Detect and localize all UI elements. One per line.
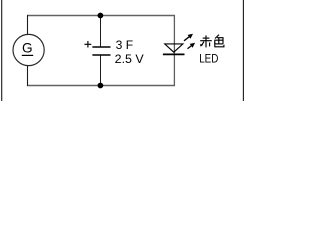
svg-text:3 F: 3 F [116,38,134,52]
capacitor C1 bottom plate [92,54,110,56]
label 赤色 (red) kanji 色 drawn as strokes [215,35,224,47]
node junction dot top [98,13,104,19]
svg-text:LED: LED [199,52,218,66]
LED D1 triangle (anode) [165,44,183,52]
wire: top horizontal [27,15,175,17]
LED D1 cathode bar [163,53,185,55]
label 赤色 (red) kanji 赤 drawn as strokes [200,35,212,47]
capacitor C1 plus sign horizontal [84,43,91,45]
right table border line [242,0,244,101]
LED D1 emission arrow 2 (lower) [188,43,196,49]
capacitor C1 top plate [92,46,110,48]
generator G1 underline under G [22,54,33,56]
left table border line [1,0,3,101]
capacitor C1 plus sign vertical [87,41,89,48]
generator G1 circle [13,34,44,65]
svg-text:2.5 V: 2.5 V [115,52,145,66]
LED D1 emission arrow 1 (upper) [184,34,193,41]
wire: left vertical [27,15,29,86]
wire: bottom horizontal [27,85,175,87]
wire: right vertical [173,15,175,86]
wire: capacitor branch top segment [100,16,102,48]
node junction dot bottom [98,83,104,89]
svg-text:G: G [22,40,33,55]
wire: capacitor branch bottom segment [100,55,102,86]
